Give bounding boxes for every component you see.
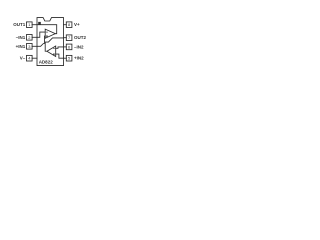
- svg-text:1: 1: [28, 22, 31, 27]
- wire pin8 to body: [64, 24, 67, 26]
- wire -IN2: pin6 jog to amp B upper input: [56, 47, 64, 48]
- wire pin7 to body: [64, 37, 67, 39]
- wire OUT1: pin1 over amp A to apex: [37, 25, 57, 34]
- svg-text:2: 2: [28, 35, 31, 40]
- pin 8 box: [66, 22, 72, 28]
- svg-text:OUT1: OUT1: [13, 22, 25, 27]
- plus mark amp B: [53, 53, 55, 55]
- pin-1 junction dot: [38, 22, 41, 25]
- pin 5 box: [66, 55, 72, 61]
- pin 1 box: [27, 22, 33, 28]
- pin 3 box: [27, 44, 33, 50]
- op-amp A triangle: [45, 29, 55, 38]
- pin 2 box: [27, 35, 33, 41]
- wire +IN1: pin3 jog to amp A lower input: [37, 36, 45, 46]
- svg-text:V–: V–: [20, 56, 26, 61]
- wire pin2 to body: [32, 36, 37, 38]
- svg-text:7: 7: [68, 35, 71, 40]
- svg-text:–IN1: –IN1: [16, 35, 26, 40]
- wire +IN2: pin5 jog to amp B lower input: [56, 54, 64, 58]
- svg-text:V+: V+: [74, 22, 80, 27]
- wire -IN1: pin2 jog to amp A upper input: [37, 32, 45, 37]
- svg-text:AD822: AD822: [39, 60, 54, 65]
- svg-text:OUT2: OUT2: [74, 35, 86, 40]
- svg-text:6: 6: [68, 44, 71, 49]
- pin 6 box: [66, 44, 72, 50]
- svg-text:+IN2: +IN2: [74, 56, 84, 61]
- IC body with notch: [37, 18, 64, 66]
- wire OUT2: amp B apex to pin7: [45, 38, 63, 51]
- svg-text:3: 3: [28, 44, 31, 49]
- svg-text:8: 8: [68, 22, 71, 27]
- svg-text:–IN2: –IN2: [74, 44, 84, 49]
- wire pin6 to body: [64, 46, 67, 48]
- wire pin3 to body: [32, 45, 37, 47]
- op-amp B triangle: [47, 46, 56, 57]
- plus mark amp A: [46, 35, 48, 37]
- minus mark amp B: [53, 47, 55, 49]
- svg-text:+IN1: +IN1: [16, 44, 26, 49]
- svg-text:5: 5: [68, 56, 71, 61]
- wire pin1 to body: [32, 24, 37, 26]
- wire pin4 to body: [32, 57, 37, 59]
- minus mark amp A: [46, 31, 48, 33]
- svg-text:4: 4: [28, 56, 31, 61]
- pin 7 box: [66, 35, 72, 41]
- pin 4 box: [27, 55, 33, 61]
- wire pin5 to body: [64, 57, 67, 59]
